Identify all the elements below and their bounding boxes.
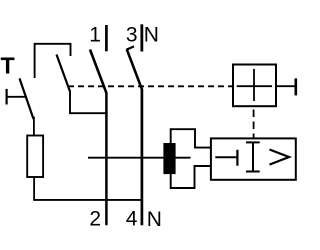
pole 1 conductor xyxy=(105,92,108,225)
pole 2 terminal bar xyxy=(140,24,143,51)
svg-text:3: 3 xyxy=(126,23,138,46)
pole 2 blade hook xyxy=(127,46,135,49)
trip coil cross vertical xyxy=(253,69,255,101)
amp input symbol xyxy=(215,156,237,158)
svg-text:N: N xyxy=(144,23,159,46)
wire aux contact to pole 1 xyxy=(70,91,108,114)
amp threshold symbol xyxy=(270,150,290,165)
wire blade to resistor xyxy=(33,117,35,136)
trip coil output bar xyxy=(294,78,297,95)
trip coil cross horizontal xyxy=(237,85,272,87)
pole 2 conductor xyxy=(141,89,144,225)
svg-text:4: 4 xyxy=(126,208,138,231)
amp I symbol xyxy=(252,142,254,171)
trip coil output line xyxy=(276,85,295,87)
svg-text:N: N xyxy=(147,208,162,231)
svg-text:T: T xyxy=(1,52,15,78)
CT core xyxy=(163,143,175,174)
pole 2 switch blade xyxy=(127,49,142,89)
wire resistor to bottom rail xyxy=(33,177,35,199)
dashed link coil to amplifier xyxy=(253,110,255,138)
test circuit upper wire (staple) xyxy=(35,44,71,78)
svg-text:2: 2 xyxy=(89,208,101,231)
pole 1 terminal bar xyxy=(105,25,108,51)
auxiliary contact blade xyxy=(57,55,71,92)
secondary winding lower lead xyxy=(171,166,211,188)
trip coil box xyxy=(233,65,276,107)
secondary winding upper lead xyxy=(171,129,211,147)
mechanical linkage dashed line xyxy=(68,85,233,87)
pole 1 switch blade xyxy=(90,50,106,94)
amplifier box xyxy=(211,138,296,179)
test button actuator xyxy=(7,89,27,105)
resistor R (test resistor) xyxy=(27,136,43,178)
test contact blade xyxy=(20,78,34,119)
primary line through CT xyxy=(88,157,191,159)
svg-text:1: 1 xyxy=(89,23,101,46)
test circuit bottom wire xyxy=(33,199,143,201)
